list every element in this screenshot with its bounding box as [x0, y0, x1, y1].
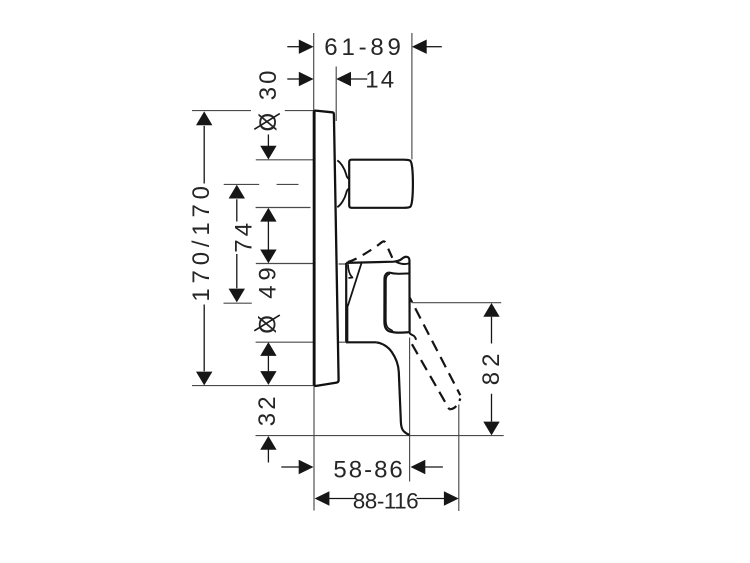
Ø49 slash overshoot [254, 315, 279, 331]
grip bottom hook [410, 332, 416, 340]
dimension 170/170 line and arrows [196, 111, 212, 385]
extension line body-bottom [256, 341, 347, 343]
grip inner line [386, 274, 393, 332]
extension line body-top [256, 263, 347, 266]
dashed lever raised position [348, 241, 394, 262]
dimension 88-116 line and arrows [315, 491, 459, 505]
volume knob [349, 160, 413, 208]
extension line 61-89 right [411, 33, 413, 159]
extension line wall-face bottom [313, 386, 315, 510]
dimension 82 line and arrows [483, 303, 499, 435]
extension line 14 [335, 67, 337, 122]
valve body left edge [345, 263, 347, 342]
extension line 61-89 left [313, 33, 315, 110]
dimension 74 line and arrows [229, 185, 245, 303]
svg-text:82: 82 [478, 349, 505, 386]
dashed lever pulled position lower edge [410, 341, 450, 410]
dashed lever pulled position upper edge [410, 298, 461, 395]
valve body bottom edge [346, 341, 376, 343]
dimension 14 arrows [287, 72, 367, 86]
svg-text:58-86: 58-86 [333, 457, 404, 484]
dimension Ø30 arrows [260, 135, 276, 264]
svg-text:61-89: 61-89 [324, 34, 404, 61]
dimension Ø49 arrows [260, 342, 276, 385]
baseline lever tip level [256, 435, 504, 437]
extension line plate-top left [192, 110, 314, 112]
extension line lever-tip bottom [409, 338, 411, 482]
dimension 58-86 arrows [281, 460, 443, 474]
svg-text:170/170: 170/170 [188, 181, 215, 301]
extension line lever axis right [412, 302, 501, 304]
knob stem upper curve [337, 160, 349, 178]
svg-text:14: 14 [365, 66, 396, 93]
body sail detail [348, 264, 353, 278]
extension line dashed-tip bottom [458, 405, 460, 512]
centerline tick lever axis [224, 302, 252, 304]
dimension 61-89 arrows [287, 40, 442, 54]
extension line plate-bottom left [192, 385, 314, 387]
extension line knob-top [256, 159, 314, 161]
curl inner line [396, 262, 409, 264]
svg-text:32: 32 [254, 393, 281, 426]
Ø30 slash overshoot [254, 114, 279, 130]
body slant lower merge [347, 304, 349, 342]
knob stem lower curve [337, 189, 349, 207]
svg-text:74: 74 [231, 220, 258, 253]
svg-text:Ø 30: Ø 30 [255, 67, 282, 131]
escutcheon plate [314, 111, 339, 386]
svg-text:88-116: 88-116 [353, 488, 418, 513]
lever outer curve down to tip [376, 342, 409, 435]
valve body top edge and curl [346, 257, 409, 332]
grip top line [389, 273, 409, 274]
extension line knob-bottom [256, 207, 311, 209]
body slant detail [348, 263, 362, 306]
centerline tick knob axis [224, 183, 299, 185]
grip front face outline [384, 273, 409, 333]
dimension 32 arrows [260, 436, 276, 463]
dashed lever pulled tip cap [449, 399, 460, 410]
